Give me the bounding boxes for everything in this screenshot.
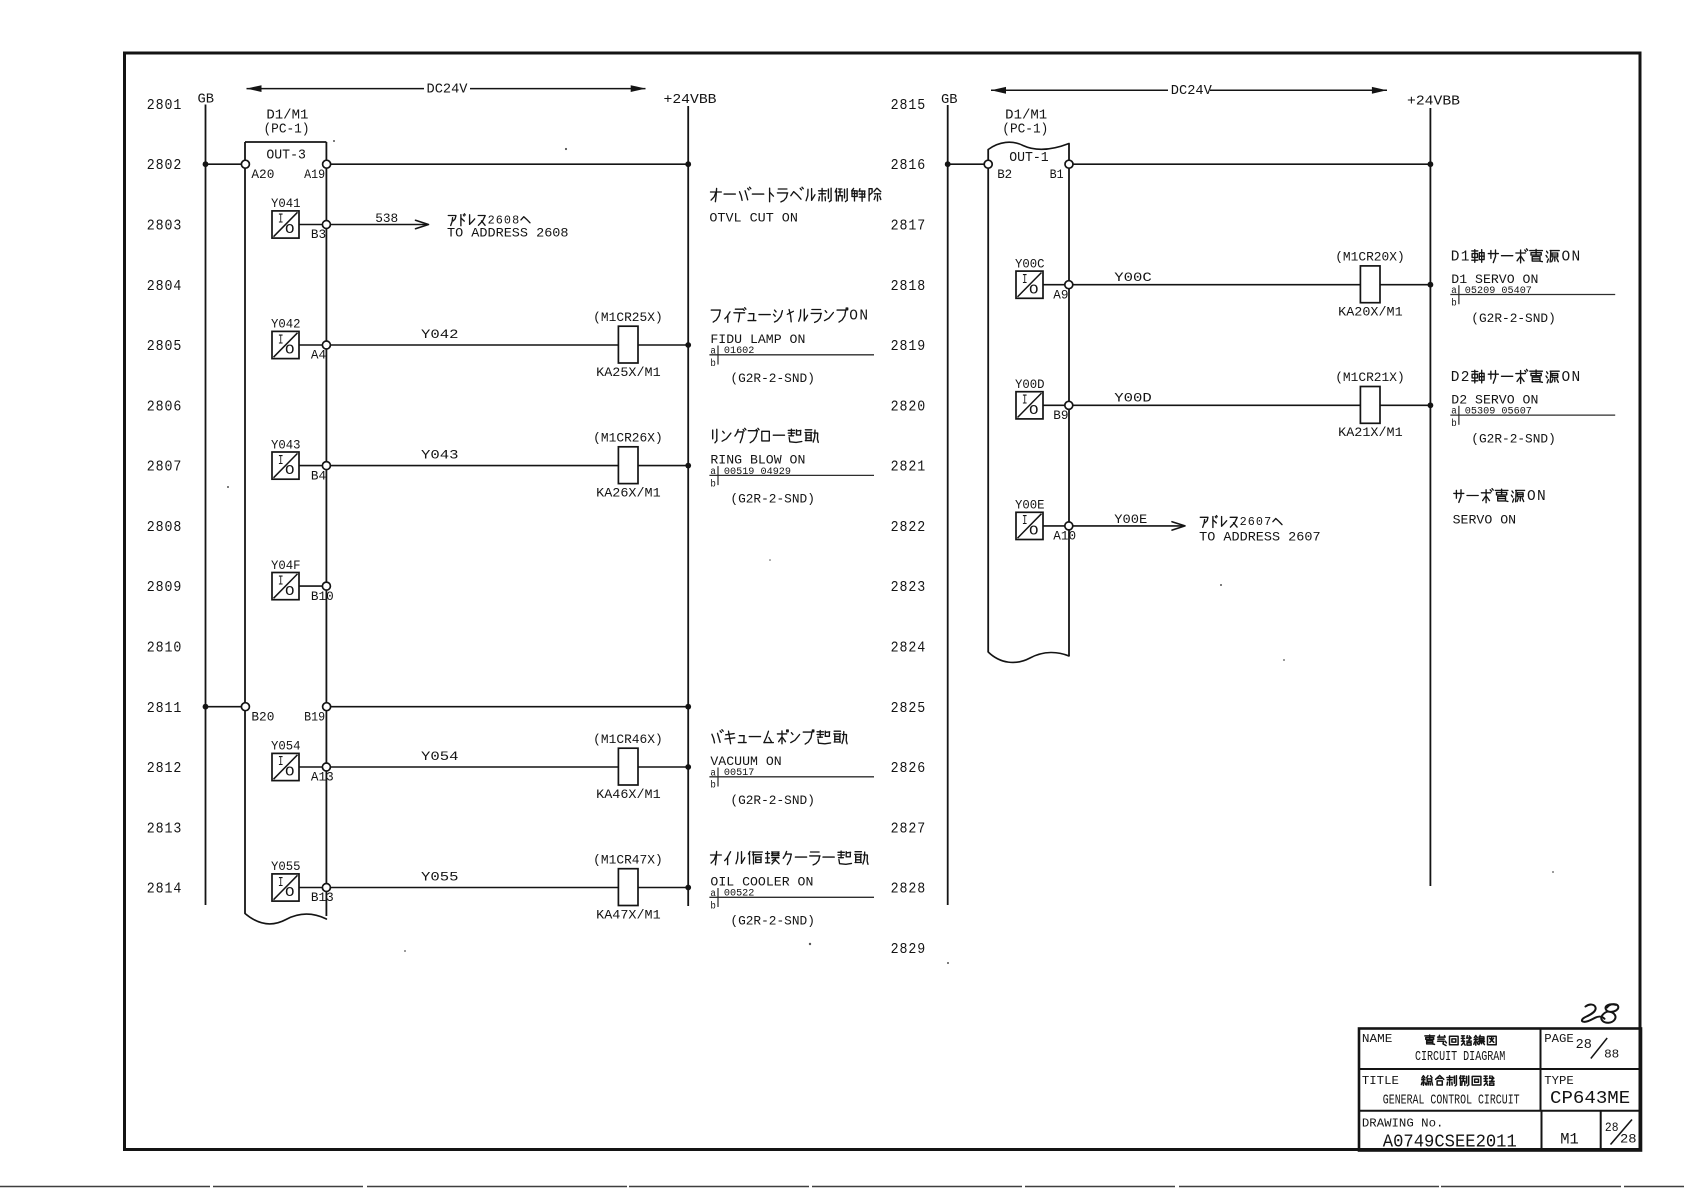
svg-text:Y00C: Y00C bbox=[1114, 270, 1152, 285]
svg-text:Y00D: Y00D bbox=[1015, 378, 1045, 392]
svg-text:(G2R-2-SND): (G2R-2-SND) bbox=[730, 492, 815, 507]
wire B1 to +24VBB bus row 2816 bbox=[1073, 163, 1430, 165]
svg-text:Y055: Y055 bbox=[271, 860, 301, 874]
svg-text:B13: B13 bbox=[311, 891, 334, 905]
svg-text:TO ADDRESS 2607: TO ADDRESS 2607 bbox=[1199, 529, 1321, 544]
svg-text:6: 6 bbox=[1248, 515, 1255, 529]
junction on GB bus row 2816 bbox=[945, 161, 951, 167]
svg-text:2828: 2828 bbox=[891, 882, 927, 898]
svg-text:O: O bbox=[849, 308, 858, 324]
svg-text:2809: 2809 bbox=[147, 580, 183, 596]
svg-text:Y054: Y054 bbox=[421, 749, 459, 764]
svg-text:TITLE: TITLE bbox=[1362, 1074, 1399, 1088]
svg-text:0: 0 bbox=[1256, 515, 1263, 529]
note address 2608 (jp) bbox=[448, 214, 530, 226]
relay coil KA26X/M1 (M1CR26X) bbox=[593, 430, 663, 500]
pin A13 terminal circle bbox=[322, 763, 330, 771]
handwritten page mark 28 bbox=[1582, 1004, 1618, 1023]
svg-text:b: b bbox=[710, 478, 716, 489]
junction on +24VBB bus row 2812 bbox=[685, 764, 691, 770]
junction on +24VBB bus row 2805 bbox=[685, 342, 691, 348]
annotation RING BLOW ON bbox=[713, 428, 819, 443]
junction on GB bus row 2802 bbox=[203, 161, 209, 167]
svg-text:2818: 2818 bbox=[891, 279, 927, 295]
pin A9 terminal circle bbox=[1065, 281, 1073, 289]
svg-text:N: N bbox=[1537, 489, 1546, 505]
svg-text:2825: 2825 bbox=[891, 701, 927, 717]
junction on +24VBB bus row 2811 bbox=[685, 704, 691, 710]
svg-text:7: 7 bbox=[1264, 515, 1271, 529]
wire Y043 to pin B4 bbox=[299, 465, 322, 467]
GB bus wire (left vertical) bbox=[205, 105, 207, 906]
svg-text:I: I bbox=[278, 213, 284, 228]
DC24V span arrow (left) bbox=[247, 83, 646, 98]
DC24V span arrow (right) bbox=[991, 84, 1387, 99]
svg-text:B3: B3 bbox=[311, 228, 326, 242]
I/O output Y055 bbox=[271, 860, 301, 901]
svg-text:(M1CR20X): (M1CR20X) bbox=[1335, 250, 1405, 265]
svg-text:538: 538 bbox=[375, 211, 398, 226]
svg-text:2: 2 bbox=[1461, 370, 1470, 386]
pin B4 terminal circle bbox=[322, 462, 330, 470]
pin B2 terminal circle bbox=[984, 160, 992, 168]
svg-text:DC24V: DC24V bbox=[1171, 84, 1213, 99]
svg-text:Y00D: Y00D bbox=[1114, 391, 1152, 406]
wire Y054 to coil KA46X bbox=[331, 766, 619, 768]
svg-text:Y00C: Y00C bbox=[1015, 257, 1045, 271]
relay coil KA46X/M1 (M1CR46X) bbox=[593, 732, 663, 802]
svg-text:(M1CR21X): (M1CR21X) bbox=[1335, 370, 1405, 385]
svg-text:1: 1 bbox=[1461, 250, 1470, 266]
relay coil KA20X/M1 (M1CR20X) bbox=[1335, 250, 1405, 320]
svg-text:2810: 2810 bbox=[147, 641, 183, 657]
svg-text:(M1CR47X): (M1CR47X) bbox=[593, 852, 663, 867]
svg-text:DRAWING No.: DRAWING No. bbox=[1362, 1116, 1444, 1130]
junction on +24VBB bus row 2814 bbox=[685, 885, 691, 891]
svg-text:A19: A19 bbox=[304, 168, 325, 182]
relay coil KA25X/M1 (M1CR25X) bbox=[593, 310, 663, 380]
wire GB to pin B20 bbox=[206, 706, 242, 708]
junction on +24VBB bus row 2802 bbox=[685, 161, 691, 167]
wire Y055 to coil KA47X bbox=[331, 887, 619, 889]
svg-text:2826: 2826 bbox=[891, 761, 927, 777]
svg-text:I: I bbox=[278, 876, 284, 891]
scan edge artifact line at page bottom bbox=[0, 1186, 1684, 1188]
svg-text:2829: 2829 bbox=[891, 942, 927, 958]
svg-text:B9: B9 bbox=[1053, 409, 1068, 423]
svg-text:2812: 2812 bbox=[147, 761, 183, 777]
svg-text:b: b bbox=[710, 780, 716, 791]
svg-text:2806: 2806 bbox=[147, 399, 183, 415]
annotation FIDU LAMP ON bbox=[711, 308, 847, 323]
svg-text:+24VBB: +24VBB bbox=[664, 92, 717, 108]
svg-text:O: O bbox=[285, 585, 295, 600]
I/O output Y00E bbox=[1015, 499, 1045, 540]
svg-text:O: O bbox=[1029, 525, 1039, 540]
svg-text:O: O bbox=[285, 464, 295, 479]
svg-text:2827: 2827 bbox=[891, 821, 927, 837]
junction on +24VBB bus row 2820 bbox=[1428, 402, 1434, 408]
svg-text:2824: 2824 bbox=[891, 641, 927, 657]
annotation SERVO ON (jp) bbox=[1454, 489, 1525, 503]
svg-text:O: O bbox=[1029, 404, 1039, 419]
wire Y054 to pin A13 bbox=[299, 766, 322, 768]
wire coil KA26X to +24VBB bus bbox=[638, 465, 688, 467]
wire Y00D to coil KA21X bbox=[1073, 404, 1361, 406]
svg-text:SERVO ON: SERVO ON bbox=[1453, 513, 1517, 528]
svg-text:2819: 2819 bbox=[891, 339, 927, 355]
svg-text:(G2R-2-SND): (G2R-2-SND) bbox=[730, 793, 815, 808]
svg-text:GENERAL CONTROL CIRCUIT: GENERAL CONTROL CIRCUIT bbox=[1383, 1093, 1520, 1108]
svg-text:Y042: Y042 bbox=[421, 327, 459, 342]
+24VBB bus wire (right vertical) bbox=[1429, 108, 1431, 886]
wire Y00C to pin A9 bbox=[1043, 284, 1065, 286]
wire Y042 to coil KA25X bbox=[331, 344, 619, 346]
wire Y04F to pin B10 bbox=[299, 585, 322, 587]
svg-text:KA20X/M1: KA20X/M1 bbox=[1338, 305, 1403, 320]
svg-text:B4: B4 bbox=[311, 469, 326, 483]
svg-text:2808: 2808 bbox=[147, 520, 183, 536]
svg-text:2804: 2804 bbox=[147, 279, 183, 295]
svg-text:B10: B10 bbox=[311, 590, 334, 604]
relay coil KA47X/M1 (M1CR47X) bbox=[593, 852, 663, 922]
svg-text:I: I bbox=[278, 755, 284, 770]
svg-text:Y043: Y043 bbox=[271, 438, 301, 452]
svg-text:2820: 2820 bbox=[891, 399, 927, 415]
svg-text:(M1CR46X): (M1CR46X) bbox=[593, 732, 663, 747]
svg-text:(M1CR25X): (M1CR25X) bbox=[593, 310, 663, 325]
svg-text:2822: 2822 bbox=[891, 520, 927, 536]
svg-text:N: N bbox=[1572, 250, 1581, 266]
svg-text:A9: A9 bbox=[1053, 288, 1068, 302]
annotation OIL COOLER ON bbox=[711, 851, 869, 865]
svg-text:28: 28 bbox=[1605, 1120, 1619, 1135]
svg-text:2802: 2802 bbox=[147, 158, 183, 174]
pin A20 terminal circle bbox=[241, 160, 249, 168]
annotation OTVL CUT ON (jp) bbox=[711, 187, 881, 202]
annotation D1 SERVO ON bbox=[1472, 249, 1559, 263]
wire Y00D to pin B9 bbox=[1043, 404, 1065, 406]
svg-text:b: b bbox=[710, 900, 716, 911]
svg-text:2805: 2805 bbox=[147, 339, 183, 355]
svg-text:I: I bbox=[278, 333, 284, 348]
svg-text:(G2R-2-SND): (G2R-2-SND) bbox=[1471, 431, 1556, 446]
I/O output Y00C bbox=[1015, 257, 1045, 298]
svg-text:+24VBB: +24VBB bbox=[1407, 93, 1460, 109]
svg-text:O: O bbox=[285, 223, 295, 238]
svg-text:A0749CSEE2011: A0749CSEE2011 bbox=[1383, 1132, 1517, 1153]
svg-text:B19: B19 bbox=[304, 710, 325, 724]
svg-text:I: I bbox=[278, 574, 284, 589]
svg-text:(PC-1): (PC-1) bbox=[1002, 123, 1048, 138]
svg-text:(M1CR26X): (M1CR26X) bbox=[593, 430, 663, 445]
GB bus wire (right vertical) bbox=[947, 105, 949, 905]
svg-text:2816: 2816 bbox=[891, 158, 927, 174]
junction on +24VBB bus row 2807 bbox=[685, 463, 691, 469]
annotation VACUUM ON bbox=[712, 730, 847, 744]
svg-text:GB: GB bbox=[941, 92, 958, 108]
svg-text:NAME: NAME bbox=[1362, 1032, 1393, 1046]
wire Y00E to pin A10 bbox=[1043, 525, 1065, 527]
pin A4 terminal circle bbox=[322, 341, 330, 349]
title block bbox=[1359, 1029, 1641, 1151]
svg-text:O: O bbox=[1562, 370, 1571, 386]
svg-text:2821: 2821 bbox=[891, 460, 927, 476]
wire B19 to +24VBB bus row 2811 bbox=[331, 706, 689, 708]
wire coil KA47X to +24VBB bus bbox=[638, 887, 688, 889]
svg-text:A20: A20 bbox=[251, 168, 274, 182]
svg-text:DC24V: DC24V bbox=[427, 83, 469, 98]
svg-text:OTVL CUT ON: OTVL CUT ON bbox=[709, 211, 798, 226]
wire GB to pin A20 bbox=[206, 163, 242, 165]
relay coil KA21X/M1 (M1CR21X) bbox=[1335, 370, 1405, 440]
svg-text:KA47X/M1: KA47X/M1 bbox=[596, 907, 661, 922]
scan noise specks bbox=[565, 148, 567, 150]
svg-text:PAGE: PAGE bbox=[1544, 1032, 1574, 1046]
svg-text:KA25X/M1: KA25X/M1 bbox=[596, 365, 661, 380]
wire A19 to +24VBB bus row 2802 bbox=[331, 163, 689, 165]
svg-text:Y042: Y042 bbox=[271, 318, 301, 332]
svg-text:Y04F: Y04F bbox=[271, 559, 301, 573]
svg-text:88: 88 bbox=[1604, 1047, 1619, 1061]
svg-text:KA46X/M1: KA46X/M1 bbox=[596, 787, 661, 802]
svg-text:(G2R-2-SND): (G2R-2-SND) bbox=[1471, 311, 1556, 326]
svg-text:O: O bbox=[285, 344, 295, 359]
PLC output module OUT-3 box bbox=[245, 142, 326, 924]
wire GB to pin B2 bbox=[948, 163, 984, 165]
I/O output Y00D bbox=[1015, 378, 1045, 419]
signal Y00E arrow to address 2607 bbox=[1073, 512, 1185, 530]
svg-text:OUT-3: OUT-3 bbox=[266, 149, 306, 164]
svg-text:TO ADDRESS 2608: TO ADDRESS 2608 bbox=[447, 226, 569, 241]
pin B3 terminal circle bbox=[322, 221, 330, 229]
note address 2607 (jp) bbox=[1200, 516, 1282, 528]
wire Y043 to coil KA26X bbox=[331, 465, 619, 467]
pin A19 terminal circle bbox=[323, 160, 331, 168]
svg-text:2814: 2814 bbox=[147, 882, 183, 898]
svg-text:I: I bbox=[1022, 514, 1028, 529]
svg-text:O: O bbox=[285, 766, 295, 781]
svg-text:(PC-1): (PC-1) bbox=[264, 123, 310, 138]
pin B1 terminal circle bbox=[1065, 160, 1073, 168]
svg-text:D: D bbox=[1451, 250, 1460, 266]
I/O output Y042 bbox=[271, 318, 301, 359]
pin B9 terminal circle bbox=[1065, 401, 1073, 409]
svg-text:A4: A4 bbox=[311, 349, 326, 363]
svg-text:KA26X/M1: KA26X/M1 bbox=[596, 485, 661, 500]
svg-text:O: O bbox=[285, 886, 295, 901]
pin B10 terminal circle bbox=[322, 582, 330, 590]
wire Y042 to pin A4 bbox=[299, 344, 322, 346]
pin B19 terminal circle bbox=[323, 703, 331, 711]
wire Y00C to coil KA20X bbox=[1073, 284, 1361, 286]
svg-text:B2: B2 bbox=[997, 168, 1012, 182]
pin A10 terminal circle bbox=[1065, 522, 1073, 530]
+24VBB bus wire (left vertical) bbox=[687, 106, 689, 906]
svg-text:CP643ME: CP643ME bbox=[1550, 1088, 1630, 1109]
svg-text:TYPE: TYPE bbox=[1544, 1074, 1574, 1088]
annotation D2 SERVO ON bbox=[1472, 369, 1559, 383]
I/O output Y04F bbox=[271, 559, 301, 600]
svg-text:2813: 2813 bbox=[147, 821, 183, 837]
svg-text:2811: 2811 bbox=[147, 701, 183, 717]
wire coil KA46X to +24VBB bus bbox=[638, 766, 688, 768]
svg-text:B1: B1 bbox=[1050, 168, 1064, 182]
svg-text:O: O bbox=[1527, 489, 1536, 505]
svg-text:Y00E: Y00E bbox=[1015, 499, 1045, 513]
svg-text:KA21X/M1: KA21X/M1 bbox=[1338, 425, 1403, 440]
svg-text:Y00E: Y00E bbox=[1114, 512, 1147, 527]
svg-text:I: I bbox=[1022, 394, 1028, 409]
svg-text:N: N bbox=[859, 308, 868, 324]
PLC output module OUT-1 box bbox=[988, 142, 1069, 662]
svg-text:2815: 2815 bbox=[891, 98, 927, 114]
wire coil KA20X to +24VBB bus bbox=[1380, 284, 1430, 286]
wire coil KA25X to +24VBB bus bbox=[638, 344, 688, 346]
junction on GB bus row 2811 bbox=[203, 704, 209, 710]
signal 538 arrow to address 2608 bbox=[331, 211, 429, 229]
svg-text:I: I bbox=[278, 454, 284, 469]
pin B13 terminal circle bbox=[322, 884, 330, 892]
svg-text:2807: 2807 bbox=[147, 460, 183, 476]
svg-text:D: D bbox=[1451, 370, 1460, 386]
I/O output Y041 bbox=[271, 197, 301, 238]
svg-text:28: 28 bbox=[1576, 1038, 1592, 1053]
svg-text:2817: 2817 bbox=[891, 219, 927, 235]
svg-text:Y043: Y043 bbox=[421, 448, 459, 463]
svg-text:A13: A13 bbox=[311, 771, 334, 785]
svg-text:Y055: Y055 bbox=[421, 870, 459, 885]
svg-text:O: O bbox=[1029, 283, 1039, 298]
svg-text:B20: B20 bbox=[251, 710, 274, 724]
svg-text:OUT-1: OUT-1 bbox=[1009, 151, 1048, 166]
pin B20 terminal circle bbox=[241, 703, 249, 711]
wire Y041 to pin B3 bbox=[299, 224, 322, 226]
junction on +24VBB bus row 2816 bbox=[1428, 161, 1434, 167]
svg-text:2803: 2803 bbox=[147, 219, 183, 235]
svg-text:2801: 2801 bbox=[147, 98, 183, 114]
svg-text:M1: M1 bbox=[1560, 1130, 1579, 1148]
svg-text:Y054: Y054 bbox=[271, 740, 301, 754]
junction on +24VBB bus row 2818 bbox=[1428, 282, 1434, 288]
I/O output Y054 bbox=[271, 740, 301, 781]
svg-text:28: 28 bbox=[1620, 1132, 1637, 1147]
svg-text:O: O bbox=[1562, 250, 1571, 266]
svg-text:2: 2 bbox=[1240, 515, 1247, 529]
svg-text:A10: A10 bbox=[1053, 530, 1076, 544]
I/O output Y043 bbox=[271, 438, 301, 479]
svg-text:b: b bbox=[710, 358, 716, 369]
svg-text:D1/M1: D1/M1 bbox=[1005, 108, 1047, 123]
svg-text:b: b bbox=[1451, 418, 1457, 429]
svg-text:I: I bbox=[1022, 273, 1028, 288]
svg-text:(G2R-2-SND): (G2R-2-SND) bbox=[730, 914, 815, 929]
svg-text:2823: 2823 bbox=[891, 580, 927, 596]
svg-text:Y041: Y041 bbox=[271, 197, 301, 211]
svg-text:b: b bbox=[1451, 298, 1457, 309]
svg-text:(G2R-2-SND): (G2R-2-SND) bbox=[730, 371, 815, 386]
wire coil KA21X to +24VBB bus bbox=[1380, 404, 1430, 406]
svg-text:N: N bbox=[1572, 370, 1581, 386]
wire Y055 to pin B13 bbox=[299, 887, 322, 889]
svg-text:D1/M1: D1/M1 bbox=[266, 108, 308, 123]
svg-text:CIRCUIT DIAGRAM: CIRCUIT DIAGRAM bbox=[1415, 1050, 1505, 1065]
